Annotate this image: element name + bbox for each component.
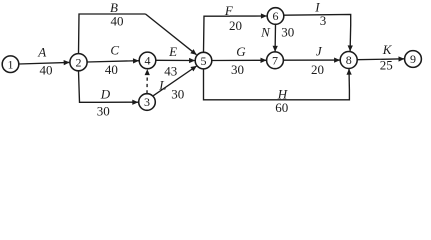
svg-text:40: 40	[105, 62, 118, 77]
svg-text:20: 20	[229, 18, 242, 33]
svg-text:30: 30	[231, 62, 244, 77]
svg-text:2: 2	[76, 55, 82, 69]
svg-text:1: 1	[8, 57, 14, 71]
svg-text:L: L	[158, 77, 166, 92]
svg-text:25: 25	[380, 58, 393, 73]
svg-text:7: 7	[272, 54, 278, 68]
svg-text:3: 3	[320, 13, 327, 28]
svg-text:43: 43	[164, 63, 177, 78]
svg-text:C: C	[110, 43, 119, 58]
svg-text:A: A	[37, 45, 46, 60]
svg-text:30: 30	[97, 104, 110, 119]
svg-text:N: N	[260, 25, 271, 40]
svg-text:30: 30	[171, 87, 184, 102]
svg-text:30: 30	[281, 25, 294, 40]
svg-text:D: D	[100, 87, 111, 102]
svg-text:40: 40	[40, 63, 53, 78]
svg-text:3: 3	[144, 95, 150, 109]
svg-text:J: J	[316, 44, 323, 59]
svg-text:5: 5	[201, 54, 207, 68]
svg-text:6: 6	[273, 9, 279, 23]
svg-text:F: F	[224, 3, 234, 18]
svg-text:K: K	[382, 42, 393, 57]
svg-text:4: 4	[145, 54, 151, 68]
svg-text:G: G	[236, 44, 246, 59]
svg-text:9: 9	[410, 52, 416, 66]
svg-text:40: 40	[111, 14, 124, 29]
svg-text:60: 60	[275, 100, 288, 115]
svg-text:8: 8	[346, 53, 352, 67]
svg-text:E: E	[168, 44, 177, 59]
svg-text:20: 20	[311, 62, 324, 77]
